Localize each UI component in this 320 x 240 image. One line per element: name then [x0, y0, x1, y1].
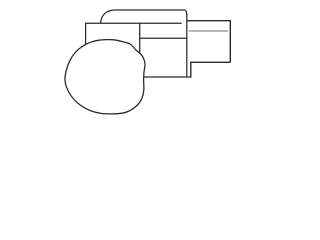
- wire inner vertical: [139, 23, 141, 56]
- wire connector bottom edge: [190, 61, 230, 63]
- wire body left edge: [85, 23, 87, 46]
- wire inner horizontal: [140, 37, 187, 39]
- wire bottom edge: [140, 76, 191, 78]
- node blob round housing: [65, 40, 145, 114]
- wire deck top edge: [115, 9, 185, 11]
- wire chamfer corner: [185, 10, 187, 15]
- wire connector gray inner line: [189, 30, 228, 32]
- wire right edge: [186, 14, 188, 77]
- wire deck rounded corner: [101, 10, 115, 23]
- wire body top edge: [86, 22, 182, 24]
- wire connector top edge: [187, 20, 231, 22]
- wire step vertical: [190, 62, 192, 77]
- wire connector right edge: [229, 21, 231, 63]
